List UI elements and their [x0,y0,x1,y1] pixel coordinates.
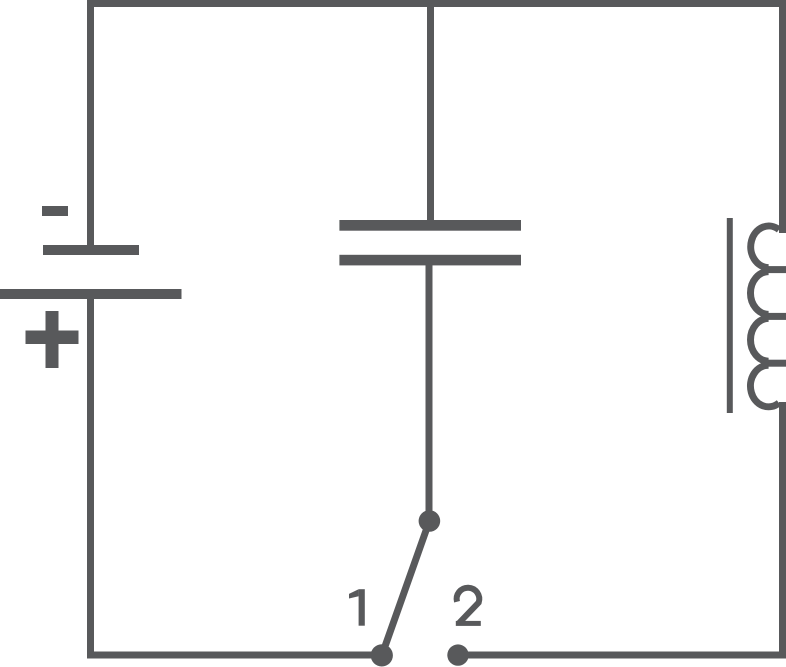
wire left lower [87,299,94,659]
switch S1 blade [382,521,430,655]
wire top [87,0,786,7]
label minus [42,206,68,216]
wire bottom left [87,652,378,659]
inductor L1 coil loops [750,226,779,407]
label 2 [456,588,481,626]
inductor L1 coil stub 3 [765,360,786,367]
inductor L1 core bar [727,218,733,413]
wire right lower [779,402,786,659]
wire left upper [87,0,94,255]
label plus [26,311,79,368]
node 2 [447,644,468,665]
wire capacitor top [427,0,434,225]
wire capacitor bottom [426,265,433,517]
capacitor C1 bottom plate [339,255,521,266]
battery B1 positive plate [0,289,182,299]
node 1 [371,644,393,666]
node pivot [419,510,441,532]
label 1 [349,589,365,626]
battery B1 negative plate [43,245,139,255]
inductor L1 coil stub 1 [765,266,786,273]
capacitor C1 top plate [339,220,521,231]
wire right upper [779,0,786,233]
wire bottom right [458,652,786,659]
inductor L1 coil stub 2 [765,313,786,320]
